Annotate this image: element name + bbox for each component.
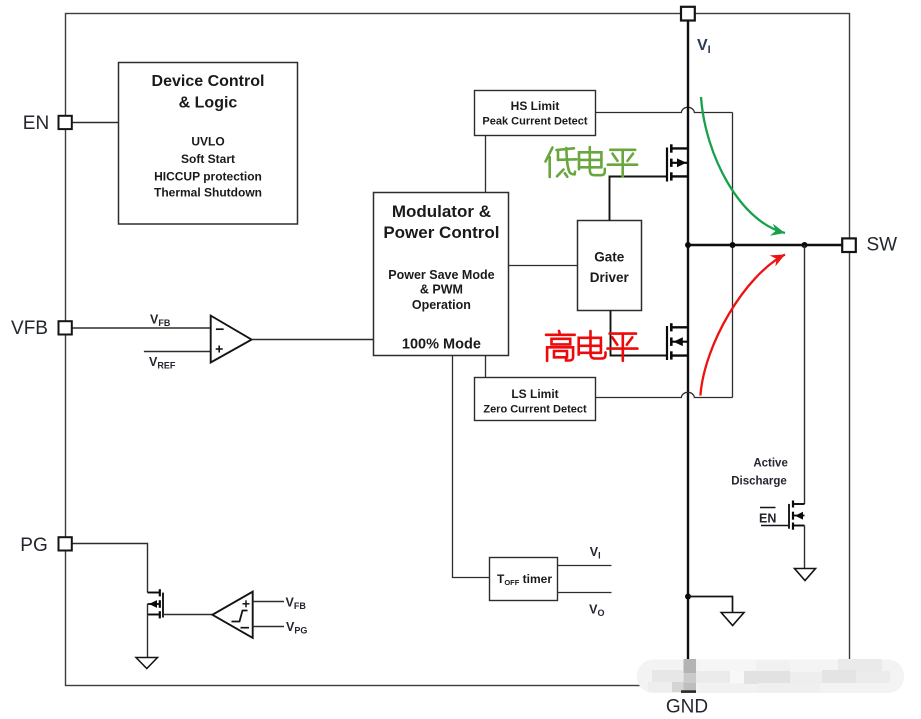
pin GND [681, 678, 695, 692]
svg-text:Thermal Shutdown: Thermal Shutdown [154, 186, 262, 200]
svg-text:& PWM: & PWM [420, 283, 463, 297]
annotation green arrow [701, 97, 785, 233]
wire Toff VI output [558, 565, 612, 567]
svg-text:Power Control: Power Control [383, 223, 499, 242]
svg-text:Discharge: Discharge [731, 476, 787, 488]
svg-text:EN: EN [23, 113, 49, 134]
annotation red arrow [700, 255, 785, 396]
svg-text:EN: EN [759, 512, 776, 526]
block Modulator & Power Control [374, 193, 509, 356]
wire SW to active discharge FET [804, 245, 806, 504]
ground symbol main [721, 613, 744, 626]
block Gate Driver [578, 221, 642, 311]
svg-text:LS Limit: LS Limit [511, 387, 558, 401]
pin VI [681, 7, 695, 21]
wire PG pin to FET [72, 544, 148, 593]
wire VI power rail vertical [687, 21, 689, 679]
block LS Limit [475, 378, 596, 421]
svg-text:Active: Active [753, 458, 788, 470]
ground symbol active discharge [795, 569, 816, 581]
wire HS Limit right with hop to sense line [596, 107, 733, 112]
ground symbol PG [136, 658, 158, 669]
svg-text:UVLO: UVLO [191, 135, 224, 149]
annotation red text 高电平 [546, 331, 637, 361]
transistor active discharge FET [789, 501, 805, 530]
wire LS Limit right with hop to sense line [596, 392, 733, 397]
wire Toff VO output [558, 592, 612, 594]
op-amp PG comparator [212, 592, 252, 638]
svg-text:PG: PG [20, 535, 47, 556]
wire PG comparator out to FET gate [163, 614, 212, 616]
svg-text:GND: GND [666, 697, 708, 718]
transistor HS power FET [667, 144, 688, 181]
wire FET source down [804, 526, 806, 569]
wire modulator bottom to Toff timer [453, 356, 490, 578]
watermark blob [637, 659, 904, 693]
wire HS Limit down to modulator [485, 136, 487, 193]
svg-text:Peak Current Detect: Peak Current Detect [482, 115, 587, 127]
svg-text:100% Mode: 100% Mode [402, 337, 481, 353]
wire VFB input to PG comparator [253, 601, 284, 603]
wire VFB pin to comparator [72, 327, 211, 329]
svg-text:SW: SW [867, 235, 898, 256]
annotation green text 低电平 [546, 147, 638, 177]
svg-text:HS Limit: HS Limit [511, 99, 560, 113]
wire gate driver to HS gate [610, 177, 667, 221]
block Device Control & Logic [119, 63, 298, 225]
outer IC boundary [66, 14, 850, 686]
block Toff timer [490, 558, 558, 601]
block HS Limit [475, 91, 596, 136]
wire VPG input to PG comparator [253, 626, 284, 628]
wire PG FET source to ground [147, 604, 149, 658]
wire EN pin to Device Control [72, 122, 119, 124]
svg-text:Gate: Gate [594, 250, 625, 265]
wire sense line vertical [732, 113, 734, 398]
pin EN [59, 116, 72, 129]
node junction dots on SW [685, 242, 691, 248]
wire modulator to LS Limit [485, 356, 487, 378]
wire VREF to comparator [144, 351, 211, 353]
pin SW [842, 238, 856, 252]
wire GND tap [685, 594, 691, 600]
wire gate driver to LS gate [611, 311, 667, 356]
svg-text:Device Control: Device Control [152, 73, 265, 90]
wire modulator to gate driver [509, 265, 578, 267]
svg-text:HICCUP protection: HICCUP protection [154, 170, 262, 184]
svg-text:Zero Current Detect: Zero Current Detect [483, 403, 587, 415]
node EN-bar label [760, 507, 776, 509]
op-amp error comparator [211, 316, 252, 363]
svg-text:& Logic: & Logic [179, 95, 238, 112]
svg-text:Driver: Driver [590, 270, 630, 285]
wire EN gate line [761, 525, 789, 527]
svg-text:Soft Start: Soft Start [181, 152, 235, 166]
transistor LS power FET [667, 323, 688, 360]
svg-text:Operation: Operation [412, 298, 471, 312]
transistor PG FET [148, 589, 164, 618]
svg-text:Power Save Mode: Power Save Mode [388, 268, 494, 282]
pin VFB [59, 321, 72, 334]
wire comparator out to modulator [252, 339, 374, 341]
wire SW node horizontal [688, 244, 842, 246]
svg-text:VFB: VFB [11, 318, 48, 339]
pin PG [59, 537, 72, 550]
svg-text:Modulator &: Modulator & [392, 202, 491, 221]
